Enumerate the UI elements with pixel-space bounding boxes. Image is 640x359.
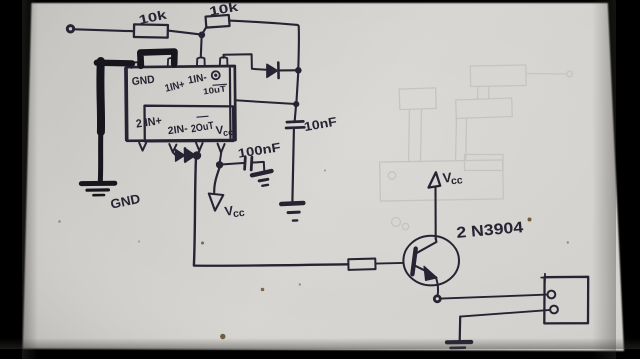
Q1 emitter stroke with arrow bbox=[414, 265, 430, 273]
resistor R2 body bbox=[206, 15, 230, 28]
svg-text:GND: GND bbox=[131, 74, 155, 88]
svg-text:cc: cc bbox=[450, 174, 463, 187]
wire node C to C1 bbox=[295, 107, 296, 121]
node D junction blob bbox=[193, 151, 202, 160]
pin tab bottom 1 bbox=[139, 143, 146, 151]
node A junction bbox=[198, 32, 205, 39]
Vcc down-arrow (supply to pin) bbox=[209, 194, 224, 211]
ground symbol GND main bbox=[81, 181, 115, 186]
diode D1 bbox=[267, 64, 278, 77]
node C junction bbox=[293, 101, 299, 107]
wire pin B4 to node E bbox=[220, 153, 221, 162]
diode D2 bbox=[176, 149, 185, 161]
wire pin B3 to node D bbox=[198, 151, 200, 154]
svg-text:cc: cc bbox=[232, 207, 245, 221]
capacitor C2 plates bbox=[243, 158, 246, 170]
wire node D down bbox=[194, 160, 196, 266]
node E junction bbox=[216, 161, 223, 168]
resistor R1 body bbox=[134, 24, 168, 37]
node F emitter junction ring bbox=[434, 296, 440, 302]
wire pin4 jog to diode D1 bbox=[224, 54, 267, 70]
connector J1 body bbox=[544, 277, 588, 324]
input terminal E1 bbox=[67, 26, 73, 32]
pin bump top 4 bbox=[220, 57, 228, 65]
diode D3 bbox=[187, 149, 196, 161]
ground under C1 bbox=[281, 203, 303, 204]
Vcc up-arrow at Q1 collector bbox=[429, 172, 441, 187]
wire pin B2 to diode D2 bbox=[173, 152, 176, 155]
wire 1OUT to node C bbox=[235, 100, 295, 104]
thick marker ground trunk bbox=[81, 52, 174, 196]
Q1 base bar bbox=[412, 249, 415, 275]
pin bump top 1 bbox=[132, 62, 139, 68]
connector J1 pin 2 bbox=[550, 306, 558, 314]
capacitor C1 plates bbox=[287, 120, 303, 123]
wire C2 to ground bbox=[252, 162, 264, 170]
faint pencil sketch (erased circuit, top right) bbox=[380, 65, 573, 230]
wire node B down to node C bbox=[297, 73, 299, 101]
wire R3 to base of Q1 bbox=[375, 262, 403, 265]
ground at connector return bbox=[447, 340, 471, 344]
pin bump top 3 bbox=[197, 57, 205, 65]
thick jumper staple over pins 1-2 bbox=[140, 52, 174, 66]
ground right of C2 bbox=[252, 171, 272, 175]
wire C1 to ground bbox=[292, 130, 294, 202]
wire node A down to pin 1IN- bbox=[200, 38, 203, 57]
svg-text:cc: cc bbox=[223, 127, 234, 138]
wire node E down to Vcc arrow bbox=[214, 168, 219, 192]
wire node E to C2 bbox=[223, 163, 244, 164]
dirt specks bbox=[58, 170, 569, 340]
Q1 collector stroke bbox=[416, 238, 437, 253]
transistor Q1 body circle bbox=[403, 236, 459, 286]
pin tab bottom 4 bbox=[218, 144, 225, 153]
resistor R3 body bbox=[348, 259, 375, 270]
wire connector pin 2 to ground bbox=[460, 310, 550, 317]
node B junction bbox=[295, 67, 302, 74]
1IN- circled dot bbox=[197, 71, 228, 118]
wire emitter node to connector pin 1 bbox=[440, 295, 547, 299]
wire D1 to node B bbox=[279, 69, 295, 71]
wire across bottom to R3 bbox=[194, 264, 348, 265]
IC U1 redrawn right edge bbox=[229, 69, 232, 140]
pin bump top 2 bbox=[168, 58, 175, 66]
pin tab bottom 3 bbox=[196, 143, 203, 151]
IC U1 outer body bbox=[127, 66, 236, 141]
thick wire arm bbox=[97, 60, 132, 67]
wire R1 to node A bbox=[168, 31, 202, 35]
wire collector up to Vcc bbox=[434, 188, 436, 240]
wire R2 to vertical bus bbox=[229, 21, 299, 70]
wire node A to R2 bbox=[202, 27, 207, 35]
wire E1 to R1 bbox=[75, 29, 134, 31]
thick vertical ground wire bbox=[96, 61, 105, 132]
pin tab bottom 2 bbox=[169, 144, 176, 152]
connector J1 pin 1 bbox=[548, 291, 556, 299]
IC U1 inner box bbox=[145, 106, 234, 142]
